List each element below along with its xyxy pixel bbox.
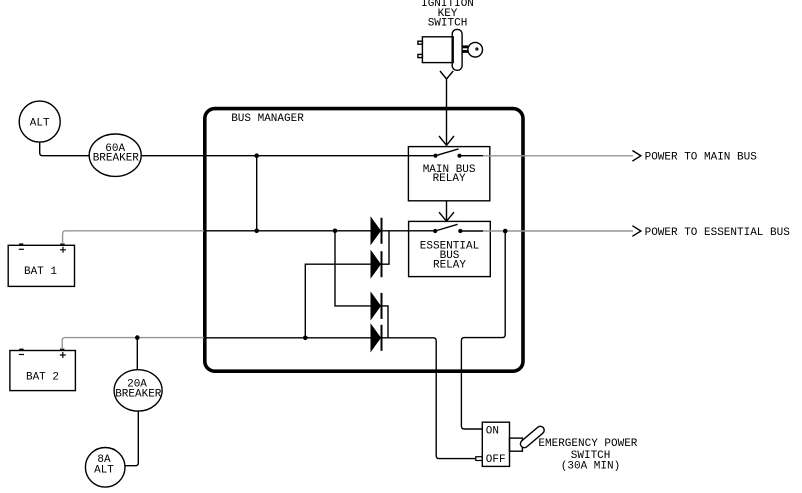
wire D3 output join to D4 line — [383, 306, 389, 338]
wire junction down to D3 — [335, 231, 371, 306]
svg-text:BREAKER: BREAKER — [115, 388, 162, 400]
svg-text:ALT: ALT — [30, 117, 50, 129]
wire D4 output to emergency switch OFF — [383, 338, 476, 459]
alternator ALT — [19, 101, 60, 142]
emergency switch OFF terminal stub — [476, 457, 483, 461]
arrow power to essential bus — [632, 226, 641, 237]
svg-text:EMERGENCY POWER: EMERGENCY POWER — [538, 438, 637, 450]
main bus relay contact — [436, 149, 459, 156]
diode D3 — [371, 293, 380, 319]
wire power to essential bus (grey) — [483, 230, 633, 232]
svg-text:RELAY: RELAY — [433, 173, 466, 185]
wire key switch to main bus relay — [440, 71, 453, 144]
essential bus relay K2 box — [409, 221, 491, 276]
junction main bus tap — [254, 153, 259, 158]
key switch shaft — [462, 45, 468, 53]
emergency power switch S1 box — [482, 422, 509, 466]
svg-text:(30A MIN): (30A MIN) — [561, 460, 620, 472]
battery BAT2 — [10, 349, 76, 390]
diode D1 — [371, 218, 380, 244]
junction on essential line — [254, 229, 259, 234]
arrow main relay to essential relay — [439, 201, 454, 221]
svg-text:BAT 1: BAT 1 — [24, 266, 57, 278]
wire ALT to 60A breaker — [40, 142, 89, 156]
wire 20A breaker to 8A alternator — [125, 411, 138, 466]
breaker CB2 20A — [114, 370, 162, 411]
emergency switch lever — [524, 430, 540, 444]
svg-text:POWER TO MAIN BUS: POWER TO MAIN BUS — [645, 152, 758, 164]
svg-text:BAT 2: BAT 2 — [26, 372, 59, 384]
main bus relay K1 box — [408, 147, 489, 201]
key switch SW1 — [418, 29, 483, 70]
junction BAT2 / 20A breaker tap — [135, 335, 140, 340]
junction BAT2 line / D2 feed — [303, 336, 308, 341]
svg-text:OFF: OFF — [486, 454, 506, 466]
svg-text:ALT: ALT — [94, 464, 114, 476]
wire D2 output join to D1 output — [383, 231, 390, 264]
wire essential bus line inside box — [204, 230, 435, 232]
wire D2 feed from BAT2 line — [305, 264, 371, 338]
junction to D3 feed — [333, 229, 338, 234]
wire main bus to essential line — [256, 156, 258, 231]
svg-text:ON: ON — [486, 426, 499, 438]
emergency switch pivot — [510, 438, 523, 451]
svg-text:BUS MANAGER: BUS MANAGER — [231, 113, 304, 125]
svg-text:SWITCH: SWITCH — [428, 17, 468, 29]
alternator 8A ALT — [85, 448, 125, 488]
svg-text:BREAKER: BREAKER — [93, 153, 140, 165]
svg-text:POWER TO ESSENTIAL BUS: POWER TO ESSENTIAL BUS — [645, 227, 791, 239]
wire power to main bus (grey) — [483, 155, 633, 157]
wire BAT2 to bus manager (grey) — [62, 338, 204, 350]
arrow power to main bus — [632, 151, 641, 162]
wire BAT2 row inside box to D4 — [204, 337, 371, 339]
svg-text:RELAY: RELAY — [433, 260, 466, 272]
bus manager enclosure — [205, 109, 523, 372]
junction essential bus tap — [503, 229, 508, 234]
arrowhead into main bus relay — [439, 136, 454, 145]
essential bus relay contact — [435, 224, 457, 231]
battery BAT1 — [8, 244, 74, 286]
diode D2 — [371, 251, 380, 277]
wire junction to 20A breaker — [136, 338, 138, 370]
breaker CB1 60A — [89, 134, 141, 176]
label IGNITION KEY SWITCH — [421, 0, 474, 29]
wire 60A breaker to main bus relay contact — [141, 155, 435, 157]
diode D4 — [371, 325, 380, 351]
wire essential bus tap to emergency switch ON — [461, 231, 505, 429]
wire BAT1 to essential bus line (grey) — [63, 231, 204, 244]
